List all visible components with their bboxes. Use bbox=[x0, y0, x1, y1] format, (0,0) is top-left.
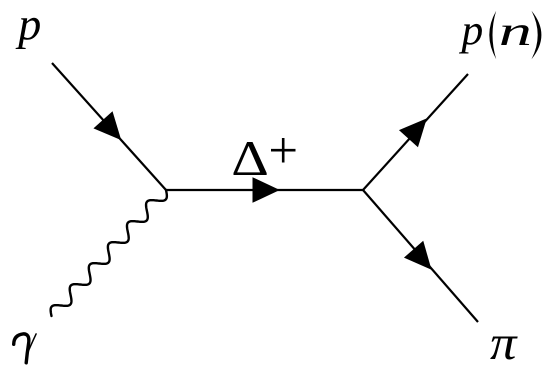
arrow on proton line bbox=[93, 111, 121, 140]
photon wavy line gamma bbox=[51, 190, 167, 316]
svg-text:p: p bbox=[459, 6, 484, 54]
wire outgoing pion line bbox=[363, 190, 478, 322]
svg-text:π: π bbox=[490, 316, 518, 370]
label plus superscript of Delta bbox=[271, 138, 296, 163]
wire outgoing nucleon line bbox=[363, 74, 468, 190]
wire incoming proton line p bbox=[52, 63, 166, 190]
svg-text:Δ: Δ bbox=[231, 131, 269, 186]
arrow on nucleon line bbox=[399, 118, 427, 147]
arrow on pion line bbox=[404, 241, 432, 270]
wire Delta+ propagator horizontal bbox=[166, 189, 363, 191]
arrow on Delta propagator bbox=[253, 177, 280, 203]
svg-text:n: n bbox=[499, 8, 532, 54]
label gamma bbox=[14, 334, 36, 363]
svg-text:p: p bbox=[15, 0, 41, 49]
